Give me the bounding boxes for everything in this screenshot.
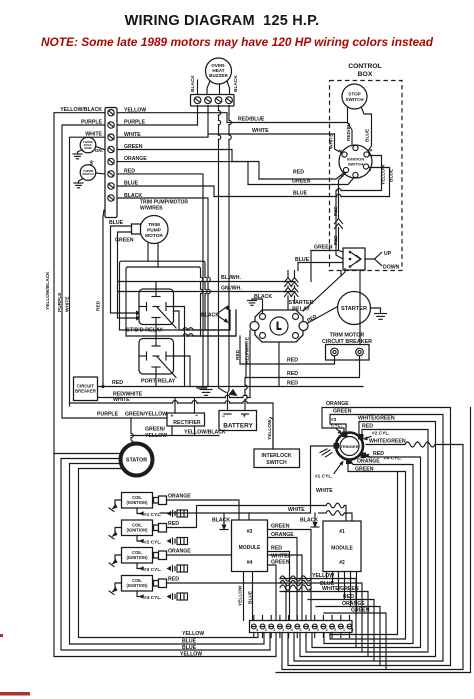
svg-text:RED: RED <box>124 168 135 174</box>
svg-text:GREEN: GREEN <box>124 144 143 150</box>
wire stator lead 3 <box>70 464 265 645</box>
svg-text:3: 3 <box>317 628 319 632</box>
svg-text:PURPLE: PURPLE <box>57 292 63 312</box>
wire blue row join <box>118 186 214 197</box>
svg-text:RED: RED <box>293 170 304 176</box>
port relay <box>139 339 176 378</box>
svg-text:ORANGE: ORANGE <box>168 549 191 555</box>
wire orange row staircase <box>118 162 248 185</box>
svg-text:RED: RED <box>96 300 102 311</box>
svg-text:BLUE: BLUE <box>182 639 197 645</box>
svg-text:+: + <box>171 414 174 420</box>
wire white row with step <box>118 134 335 137</box>
wire breaker left terminal down <box>240 356 335 364</box>
choke solenoid <box>80 137 96 153</box>
red page edge marks <box>0 634 3 637</box>
wire relay to ground <box>252 299 263 314</box>
wire coil3 orange <box>167 555 303 621</box>
svg-text:BOX: BOX <box>358 71 373 78</box>
wire trigger red row <box>306 430 428 653</box>
wire battery minus lead <box>227 394 229 411</box>
wire pump lead 2 <box>157 244 159 268</box>
coil 1 (ignition) <box>122 493 167 509</box>
wire white long vertical <box>70 137 105 406</box>
svg-text:#4 CYL.: #4 CYL. <box>384 456 402 462</box>
svg-text:BLACK: BLACK <box>233 75 239 92</box>
svg-text:STARTER: STARTER <box>288 300 313 306</box>
svg-text:YELLOW/BLACK: YELLOW/BLACK <box>60 107 102 113</box>
svg-text:BLUE: BLUE <box>295 257 310 263</box>
wire red row down left <box>118 174 203 388</box>
wire module3 green <box>268 530 312 621</box>
svg-text:TRIM: TRIM <box>148 222 160 228</box>
coil1 ground arrow <box>115 500 122 504</box>
wire stop switch left lead <box>347 108 349 123</box>
svg-text:GREEN: GREEN <box>314 245 333 251</box>
svg-text:BLUE: BLUE <box>124 181 139 187</box>
svg-text:(IGNITION): (IGNITION) <box>127 583 149 588</box>
svg-text:ORANGE: ORANGE <box>168 494 191 500</box>
svg-text:WHITE: WHITE <box>65 296 71 312</box>
coil 3 (ignition) <box>122 548 167 564</box>
svg-text:3: 3 <box>265 628 267 632</box>
svg-text:YELLOW/BLACK: YELLOW/BLACK <box>184 430 226 436</box>
svg-text:WHITE: WHITE <box>329 133 335 149</box>
svg-text:BL./WH.: BL./WH. <box>221 275 241 281</box>
svg-text:+: + <box>243 414 247 420</box>
therm switch <box>80 165 96 181</box>
battery <box>219 411 257 431</box>
wavy bundle under module3 <box>280 576 311 590</box>
wire green row to trim switch <box>311 251 343 253</box>
left terminal strip <box>105 108 117 218</box>
arrows into relay <box>136 311 141 316</box>
wire yellow row to red/blue row <box>118 113 348 123</box>
svg-text:RED/BU: RED/BU <box>346 122 352 141</box>
wire yellow/black long vertical <box>54 113 276 657</box>
wire relay bottom leads down <box>245 342 247 378</box>
wire ignition right blue loop <box>369 168 390 197</box>
wire buzzer t4 long down <box>228 106 230 394</box>
svg-text:PURPLE: PURPLE <box>81 119 103 125</box>
svg-text:ORANGE: ORANGE <box>326 401 349 407</box>
wire black bus from strip right <box>118 198 208 388</box>
svg-text:4: 4 <box>291 628 293 632</box>
svg-text:PUMP: PUMP <box>147 228 162 234</box>
black label arrows <box>218 306 228 313</box>
svg-text:RED: RED <box>333 206 338 216</box>
svg-text:PURPLE: PURPLE <box>124 120 146 126</box>
wire control box right vertical to breaker <box>359 271 361 345</box>
svg-text:BLUE: BLUE <box>293 191 308 197</box>
wire blue row to trim switch <box>298 262 343 264</box>
svg-text:#1 CYL.: #1 CYL. <box>315 474 333 480</box>
svg-text:INTERLOCK: INTERLOCK <box>261 453 292 459</box>
wire nest row 1 <box>120 261 206 330</box>
svg-text:GREEN: GREEN <box>271 560 290 566</box>
wire module3 red <box>268 552 290 621</box>
svg-text:GREEN: GREEN <box>271 524 290 530</box>
wire white into ignition <box>335 134 343 153</box>
spark plug 4 <box>167 593 188 600</box>
wire battery plus lead <box>244 378 246 411</box>
svg-text:ORANGE: ORANGE <box>357 459 380 465</box>
trim switch <box>343 248 365 270</box>
wire choke to strip <box>96 147 104 150</box>
svg-text:GREEN: GREEN <box>115 238 134 244</box>
svg-text:#1: #1 <box>339 529 345 535</box>
wire stator top lead <box>131 418 137 445</box>
svg-text:GREEN/YELLOW: GREEN/YELLOW <box>125 412 167 418</box>
junction dot red row <box>101 385 104 388</box>
ignition switch <box>339 145 373 178</box>
wire gn/wh row <box>118 291 295 293</box>
wire red/white row <box>98 397 251 399</box>
wire buzzer lead right <box>227 81 230 95</box>
svg-text:WHITE/GREEN: WHITE/GREEN <box>358 416 395 422</box>
wire trigger orange row 3 <box>324 461 413 644</box>
svg-text:SWITCH: SWITCH <box>266 460 287 466</box>
svg-text:YELLOW: YELLOW <box>238 585 244 606</box>
wire module3 orange <box>268 538 298 621</box>
wire stator lead 1 <box>54 453 122 455</box>
wire ignition bottom to red row <box>259 173 345 180</box>
svg-text:YELLOW: YELLOW <box>267 419 273 440</box>
wire rectifier top leads <box>175 399 195 414</box>
svg-text:WHITE/GREEN: WHITE/GREEN <box>322 586 359 592</box>
wire module3 blue down <box>252 572 254 621</box>
wire ignition bottom to green row <box>248 178 354 185</box>
svg-text:YELLOW: YELLOW <box>180 652 202 658</box>
svg-text:−: − <box>195 414 198 420</box>
svg-text:RED: RED <box>333 235 338 245</box>
svg-text:NOID: NOID <box>84 146 91 150</box>
svg-text:TRIGGER: TRIGGER <box>340 444 358 449</box>
wire nest row 2 <box>126 267 201 336</box>
wire therm to strip <box>96 172 104 175</box>
battery cable arrow <box>229 389 238 396</box>
svg-text:−: − <box>222 414 226 420</box>
svg-text:MODULE: MODULE <box>239 545 261 551</box>
bottom terminal strip <box>250 621 353 633</box>
svg-text:BREAKER: BREAKER <box>75 389 96 394</box>
wire stator lead 4 <box>79 469 259 638</box>
ground (starter) <box>375 314 387 320</box>
svg-text:GREEN/: GREEN/ <box>145 427 165 433</box>
svg-text:WHITE: WHITE <box>252 128 269 134</box>
svg-text:YELLOW: YELLOW <box>124 108 146 114</box>
wire red vertical in control box <box>339 173 347 218</box>
wire module3 white/green <box>268 565 277 621</box>
svg-text:YELLOW: YELLOW <box>312 573 334 579</box>
svg-text:CYL.: CYL. <box>331 423 342 429</box>
svg-text:1: 1 <box>343 628 345 632</box>
wire trigger white/green row 2 (squiggles) <box>366 444 405 446</box>
spark plug 2 <box>167 538 188 545</box>
svg-text:BLACK: BLACK <box>201 313 219 319</box>
coil4 plug lead <box>137 591 143 597</box>
st'b'd relay <box>139 289 176 328</box>
svg-text:RED: RED <box>168 521 179 527</box>
svg-text:BLACK: BLACK <box>190 75 196 92</box>
wire buzzer lead left <box>207 81 210 95</box>
svg-text:YELLOW: YELLOW <box>182 631 204 637</box>
wire module1 yellow <box>280 572 327 579</box>
wire port relay bottom down <box>155 374 157 387</box>
svg-text:(IGNITION): (IGNITION) <box>127 555 149 560</box>
wire trigger green row <box>294 415 443 662</box>
stator <box>121 444 153 476</box>
svg-text:#4: #4 <box>247 560 253 566</box>
svg-text:WIRING DIAGRAM 125 H.P.: WIRING DIAGRAM 125 H.P. <box>125 13 320 29</box>
svg-text:YELLOW: YELLOW <box>145 433 167 439</box>
wire module1 orange <box>316 572 351 607</box>
svg-text:STOP: STOP <box>348 92 360 97</box>
svg-text:RED: RED <box>373 451 384 457</box>
svg-text:TRIM MOTOR: TRIM MOTOR <box>330 333 365 339</box>
wire red long row <box>98 386 364 388</box>
wire starter to ground <box>371 308 381 314</box>
wire ignition right yellow loop <box>336 156 382 260</box>
wire bl/wh row <box>118 281 295 283</box>
svg-text:NOTE: Some late 1989 motors ma: NOTE: Some late 1989 motors may have 120… <box>41 35 434 49</box>
svg-text:RECTIFIER: RECTIFIER <box>173 420 201 426</box>
wire purple / green-yellow row <box>62 417 167 419</box>
coil 4 (ignition) <box>122 576 167 592</box>
svg-text:#2 CYL.: #2 CYL. <box>372 431 390 437</box>
svg-text:#1 CYL.: #1 CYL. <box>144 512 162 518</box>
svg-text:2: 2 <box>334 628 336 632</box>
starter relay plate <box>250 310 308 342</box>
wire yellow/black row <box>131 435 219 437</box>
starter motor <box>338 292 371 325</box>
svg-text:BLUE: BLUE <box>365 128 371 142</box>
svg-text:BUZZER: BUZZER <box>209 73 228 78</box>
svg-text:YELLOW: YELLOW <box>381 164 387 185</box>
svg-text:WHITE: WHITE <box>288 507 305 513</box>
wire red/blu to ignition <box>348 123 353 146</box>
rectifier <box>167 413 205 426</box>
wire green row staircase <box>118 150 259 180</box>
svg-text:RED: RED <box>168 577 179 583</box>
svg-text:RED: RED <box>271 546 282 552</box>
trim motor circuit breaker box <box>326 345 370 361</box>
wire module1 blue <box>280 572 333 584</box>
svg-text:1: 1 <box>282 628 284 632</box>
ground (starter relay) <box>248 301 257 306</box>
wire red/white vertical <box>249 330 251 398</box>
svg-text:ST’B’D RELAY: ST’B’D RELAY <box>126 328 163 334</box>
ground (therm) <box>74 183 83 188</box>
trigger <box>334 432 367 465</box>
svg-text:RED: RED <box>112 380 123 386</box>
svg-text:BLUE: BLUE <box>182 645 197 651</box>
svg-text:RED: RED <box>287 371 298 377</box>
wire purple long vertical <box>62 125 104 418</box>
wire white row <box>70 403 274 449</box>
chevrons on red wire <box>335 219 343 229</box>
buzzer terminal strip <box>191 95 235 107</box>
stop switch <box>342 84 367 109</box>
svg-text:#3: #3 <box>247 529 253 535</box>
svg-text:GREEN: GREEN <box>333 409 352 415</box>
svg-text:CONTROL: CONTROL <box>348 63 382 70</box>
svg-text:2: 2 <box>326 628 328 632</box>
wire buzzer t2 down <box>207 106 209 135</box>
svg-text:RED: RED <box>287 358 298 364</box>
svg-text:SWITCH: SWITCH <box>348 162 364 167</box>
ground (choke) <box>73 154 82 159</box>
circuit breaker (left) <box>74 377 98 401</box>
svg-text:(IGNITION): (IGNITION) <box>127 500 149 505</box>
wire white row to module 1 <box>319 512 327 514</box>
spark plug 1 <box>167 510 188 517</box>
wire stb'd relay top to bl/wh row <box>155 282 157 290</box>
svg-text:PURPLE: PURPLE <box>97 412 119 418</box>
coil3 plug lead <box>137 563 143 569</box>
right bundle extra verticals <box>330 472 398 635</box>
svg-text:#4 CYL.: #4 CYL. <box>144 595 162 601</box>
svg-text:#3 CYL.: #3 CYL. <box>144 567 162 573</box>
wire buzzer t1 down <box>197 106 199 126</box>
bottom strip terminals <box>251 616 351 638</box>
module #3/#4 <box>232 520 268 572</box>
wire coil4 red <box>167 583 287 621</box>
svg-text:WHITE: WHITE <box>124 132 141 138</box>
interlock switch <box>254 449 300 468</box>
svg-text:RED/WHITE: RED/WHITE <box>245 336 251 364</box>
wire purple row to buzzer t1 <box>118 124 198 126</box>
svg-text:RED/BLUE: RED/BLUE <box>238 117 265 123</box>
wire interlock up (yellow) <box>270 418 273 450</box>
wire module1 green <box>324 572 357 614</box>
svg-text:RED: RED <box>287 381 298 387</box>
wire trigger green row 4 <box>330 464 406 639</box>
coil1 plug lead <box>137 508 143 514</box>
svg-text:WHITE/GREEN: WHITE/GREEN <box>369 439 406 445</box>
svg-text:DOWN: DOWN <box>383 265 400 271</box>
wire buzzer t3 long down <box>219 106 227 393</box>
svg-text:#2 CYL.: #2 CYL. <box>144 540 162 546</box>
wire green to pump <box>118 232 137 318</box>
svg-text:BLUE: BLUE <box>248 590 254 604</box>
svg-text:GN./WH.: GN./WH. <box>221 285 242 291</box>
svg-text:UP: UP <box>384 251 392 257</box>
wire pump lead 1 <box>147 244 149 262</box>
wire nest bottom row 1 <box>120 310 231 330</box>
overheat buzzer <box>206 58 232 84</box>
wire nest bottom row 2 <box>126 310 236 336</box>
svg-text:MOTOR: MOTOR <box>145 233 163 239</box>
wire blue row into box <box>214 196 390 198</box>
svg-text:BLUE: BLUE <box>109 220 124 226</box>
wire red vertical (left of red/white) <box>239 336 241 364</box>
svg-text:GREEN: GREEN <box>292 179 311 185</box>
svg-text:WHITE: WHITE <box>113 397 130 403</box>
svg-text:RED: RED <box>362 424 373 430</box>
svg-text:BLUE: BLUE <box>389 168 395 182</box>
wire blue to pump <box>111 226 137 313</box>
wire blue diagonal to starter relay <box>303 269 345 312</box>
wire coil1 orange <box>167 500 240 520</box>
svg-text:ORANGE: ORANGE <box>271 532 294 538</box>
svg-text:MODULE: MODULE <box>331 546 353 552</box>
svg-text:SWITCH: SWITCH <box>82 172 93 176</box>
svg-text:(IGNITION): (IGNITION) <box>127 528 149 533</box>
coil3 ground arrow <box>115 555 122 559</box>
svg-text:1: 1 <box>352 628 354 632</box>
svg-text:#2: #2 <box>339 560 345 566</box>
svg-text:W/WIRES: W/WIRES <box>140 206 163 212</box>
svg-text:STATOR: STATOR <box>126 458 147 464</box>
module #1/#2 <box>323 521 361 572</box>
svg-text:2: 2 <box>273 628 275 632</box>
coil4 ground arrow <box>115 583 122 587</box>
coil2 plug lead <box>137 536 143 542</box>
coil2 ground arrow <box>115 528 122 532</box>
wire rectifier bottom leads <box>171 426 173 436</box>
control box outline (dashed) <box>330 81 403 271</box>
svg-text:RED: RED <box>343 594 354 600</box>
wire stb'd bottom to port top <box>155 325 157 339</box>
svg-text:4: 4 <box>256 628 258 632</box>
wire stator lead 2 <box>61 459 270 651</box>
wire from box bottom x341 <box>340 271 342 277</box>
wire coil2 red <box>167 506 327 528</box>
coil 2 (ignition) <box>122 520 167 536</box>
svg-text:WHITE: WHITE <box>316 488 333 494</box>
wire red diagonal relay to starter <box>307 307 338 324</box>
svg-text:#3: #3 <box>331 417 337 423</box>
svg-text:PORT RELAY: PORT RELAY <box>141 379 176 385</box>
svg-text:BLACK: BLACK <box>212 518 230 524</box>
svg-text:GREEN: GREEN <box>351 608 370 614</box>
svg-text:BATTERY: BATTERY <box>223 423 253 430</box>
wire trigger orange row <box>288 408 451 666</box>
wire black stub left <box>197 80 199 95</box>
svg-text:RELAY: RELAY <box>292 307 310 313</box>
wires exiting control box bottom with chevrons <box>287 271 289 312</box>
wire red vertical mid-left <box>103 210 104 387</box>
wire black stub right <box>219 84 221 95</box>
wire stop switch right lead (blue) <box>362 108 372 152</box>
svg-text:ORANGE: ORANGE <box>124 156 147 162</box>
wire module1 white/green <box>280 572 339 592</box>
wire breaker right terminal down <box>246 356 360 378</box>
svg-text:GREEN: GREEN <box>355 467 374 473</box>
svg-text:STARTER: STARTER <box>341 306 367 312</box>
ground (near battery) <box>197 388 206 390</box>
wire module3 yellow down <box>243 572 245 621</box>
spark plug 3 <box>167 565 188 572</box>
wire relay outputs right <box>174 307 185 387</box>
svg-text:ORANGE: ORANGE <box>342 601 365 607</box>
svg-text:4: 4 <box>300 628 302 632</box>
trim pump motor <box>132 216 169 244</box>
wire trigger white/green row <box>300 422 436 657</box>
svg-text:YELLOW/BLACK: YELLOW/BLACK <box>45 271 51 310</box>
wire white from trigger left tab <box>160 446 334 513</box>
wire module1 red <box>308 572 345 600</box>
svg-text:RED: RED <box>235 349 241 360</box>
wire therm to ground <box>79 179 84 184</box>
svg-text:3: 3 <box>308 628 310 632</box>
wire trim switch right to up/down <box>365 253 382 266</box>
svg-text:SWITCH: SWITCH <box>345 97 364 102</box>
wire choke to ground <box>78 150 83 155</box>
wire trigger red row 2 <box>312 456 421 648</box>
